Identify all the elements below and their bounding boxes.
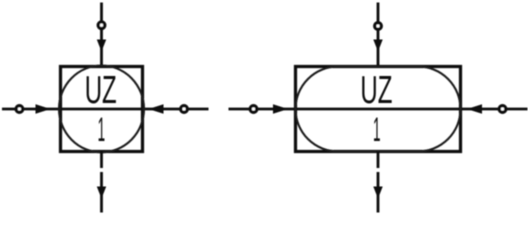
wire: left stub into left station: [2, 108, 61, 111]
arrowhead: flow leftward into right station: [467, 104, 482, 113]
svg-text:UZ: UZ: [85, 69, 117, 112]
svg-text:1: 1: [373, 111, 381, 149]
wire: right stub into left station: [143, 108, 209, 111]
terminal circle on right stub (right station): [499, 106, 506, 113]
wire: left stub into right station: [229, 108, 296, 111]
inscribed stadium of right station: [296, 67, 461, 152]
box: left station square outline: [61, 67, 143, 152]
svg-text:UZ: UZ: [360, 69, 392, 112]
wire: top stub into left station: [100, 3, 103, 67]
arrowhead: flow downward out of left station: [97, 187, 106, 199]
arrowhead: flow leftward into left station: [149, 104, 164, 113]
arrowhead: flow downward out of right station: [373, 187, 382, 199]
wire: bottom stub dash 1 (left station): [100, 152, 103, 169]
inscribed circle of left station: [59, 66, 144, 153]
wire: top stub into right station: [377, 3, 380, 67]
arrowhead: flow downward into right station: [373, 40, 382, 52]
terminal circle on left stub (left station): [16, 106, 23, 113]
wire: right stub into right station: [461, 108, 528, 111]
wire: bottom stub dash 1 (right station): [377, 152, 380, 169]
wire: divider line through right station box: [296, 108, 461, 111]
box: right station rectangle outline: [296, 67, 461, 152]
arrowhead: flow rightward into left station: [36, 104, 51, 113]
arrowhead: flow downward into left station: [97, 40, 106, 52]
terminal circle on left stub (right station): [250, 106, 257, 113]
terminal circle on top stub (right station): [375, 23, 382, 30]
wire: bottom stub dash 2 (right station): [377, 172, 380, 213]
svg-text:1: 1: [98, 111, 106, 149]
arrowhead: flow rightward into right station: [273, 104, 288, 113]
wire: divider line through left station box: [61, 108, 143, 111]
terminal circle on top stub (left station): [98, 22, 105, 29]
wire: bottom stub dash 2 (left station): [100, 172, 103, 213]
terminal circle on right stub (left station): [181, 106, 188, 113]
